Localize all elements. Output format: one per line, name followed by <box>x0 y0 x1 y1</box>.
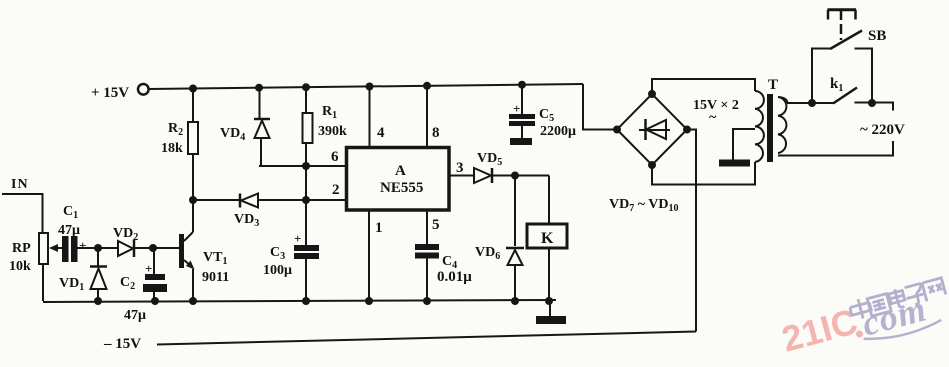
ground symbol center tap <box>719 160 750 167</box>
svg-text:47μ: 47μ <box>58 223 80 238</box>
capacitor C4 0.01u <box>415 244 472 301</box>
svg-text:R1: R1 <box>322 104 337 121</box>
transistor VT1 9011 NPN <box>179 200 229 301</box>
wire -15V rail <box>103 332 696 353</box>
node dots on ground rail <box>94 297 553 305</box>
svg-text:RP: RP <box>12 241 31 256</box>
transformer T core <box>767 77 778 162</box>
svg-text:~: ~ <box>709 110 717 125</box>
node junction VD6 top <box>511 172 519 180</box>
svg-text:2: 2 <box>332 182 340 198</box>
svg-text:VD7 ~ VD10: VD7 ~ VD10 <box>609 197 678 214</box>
resistor RP potentiometer 10k <box>9 233 62 274</box>
svg-text:+: + <box>79 238 86 253</box>
wire C1 to VD2 signal line <box>78 247 119 249</box>
svg-text:C1: C1 <box>63 204 78 221</box>
svg-text:4: 4 <box>377 125 385 141</box>
wire bridge bottom vertex to secondary bottom <box>652 162 755 185</box>
pin 1 <box>369 210 383 301</box>
svg-text:390k: 390k <box>318 124 347 139</box>
svg-text:0.01μ: 0.01μ <box>437 269 472 285</box>
switch k1 relay contact <box>830 76 893 111</box>
node k1 left junction <box>808 99 816 107</box>
diode VD5 <box>449 151 549 183</box>
wire VD2 to base <box>135 247 179 249</box>
svg-text:VD6: VD6 <box>475 245 500 262</box>
svg-text:K: K <box>541 230 554 247</box>
svg-text:C2: C2 <box>120 275 135 292</box>
pin 8 <box>427 86 440 148</box>
node junction R1 bottom <box>302 162 310 170</box>
wire bridge top vertex to secondary top <box>652 79 755 94</box>
svg-text:A: A <box>395 163 406 179</box>
svg-text:+: + <box>294 231 301 246</box>
diode VD4 <box>220 88 270 166</box>
wire bridge right vertex to -15V rail <box>687 130 696 332</box>
svg-text:+: + <box>145 261 152 276</box>
svg-text:8: 8 <box>432 125 440 141</box>
svg-text:100μ: 100μ <box>263 263 292 278</box>
diode VD3 <box>193 194 347 230</box>
svg-text:2200μ: 2200μ <box>540 124 576 139</box>
resistor R2 18k <box>161 88 198 200</box>
capacitor C1 47u electrolytic <box>58 204 86 262</box>
svg-text:VD4: VD4 <box>220 126 245 143</box>
node junction pin2 column <box>302 196 310 204</box>
svg-text:NE555: NE555 <box>380 180 423 196</box>
IC A NE555 timer <box>347 148 450 211</box>
svg-text:IN: IN <box>11 177 29 192</box>
node junction VD1 <box>94 244 102 252</box>
svg-text:3: 3 <box>456 160 464 176</box>
node +15V terminal <box>91 84 149 101</box>
diode VD6 <box>475 176 524 302</box>
capacitor C5 2200u electrolytic <box>509 85 576 139</box>
svg-text:VD1: VD1 <box>59 276 84 293</box>
node IN input terminal <box>11 177 29 192</box>
svg-text:VT1: VT1 <box>203 250 227 267</box>
pin 4 <box>370 87 386 148</box>
svg-text:5: 5 <box>432 217 440 233</box>
svg-text:k1: k1 <box>830 76 843 94</box>
svg-text:6: 6 <box>331 149 339 165</box>
svg-text:– 15V: – 15V <box>103 336 141 352</box>
node k1 right junction <box>868 99 876 107</box>
svg-text:47μ: 47μ <box>124 308 146 323</box>
svg-text:10k: 10k <box>9 259 31 274</box>
wire RP bottom lead <box>42 264 44 301</box>
capacitor C3 100u electrolytic <box>263 231 319 301</box>
wire rail to bridge <box>583 84 617 130</box>
node dots on top rail <box>189 81 526 93</box>
svg-text:1: 1 <box>375 220 383 236</box>
diode VD2 <box>113 226 138 257</box>
wire IN input lead <box>2 194 43 233</box>
svg-text:SB: SB <box>868 28 886 44</box>
node junction collector R2 VD3 <box>189 196 197 204</box>
transformer T secondary winding 15Vx2 <box>693 91 764 162</box>
wire primary top line <box>778 97 834 103</box>
watermark 21IC.com <box>777 300 861 359</box>
ground symbol C5 <box>510 138 532 145</box>
transformer T primary winding <box>778 97 786 153</box>
ground symbol main <box>536 301 566 324</box>
svg-text:VD3: VD3 <box>234 212 259 229</box>
svg-text:VD2: VD2 <box>113 226 138 243</box>
wire pin6 line <box>259 165 347 167</box>
svg-text:T: T <box>768 77 778 93</box>
relay coil K <box>527 176 567 302</box>
svg-text:18k: 18k <box>161 141 183 156</box>
wire ground rail <box>43 300 556 302</box>
pin 5 <box>427 210 440 244</box>
capacitor C2 47u electrolytic <box>120 248 167 323</box>
svg-text:+: + <box>513 101 520 116</box>
svg-text:~ 220V: ~ 220V <box>860 122 905 138</box>
svg-text:R2: R2 <box>168 121 183 138</box>
diode VD1 <box>59 248 107 301</box>
svg-text:C3: C3 <box>270 245 285 262</box>
wire +15V top rail <box>148 84 583 89</box>
resistor R1 390k <box>303 87 348 245</box>
wire primary right side ~220V <box>778 122 905 156</box>
svg-text:VD5: VD5 <box>477 151 502 168</box>
watermark chinese characters <box>848 277 946 321</box>
wire transformer center tap <box>733 129 755 160</box>
switch SB pushbutton <box>812 10 886 103</box>
node junction C2 <box>149 244 157 252</box>
svg-text:C5: C5 <box>539 107 554 124</box>
svg-text:9011: 9011 <box>202 270 229 285</box>
svg-text:+ 15V: + 15V <box>91 85 129 101</box>
bridge rectifier VD7-VD10 <box>609 90 691 214</box>
